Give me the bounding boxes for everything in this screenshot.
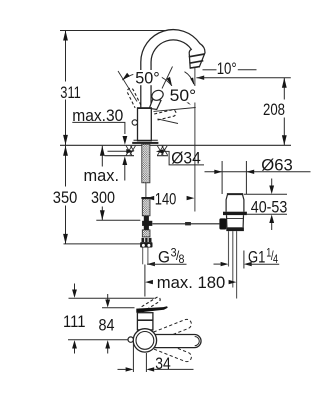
G1 1/4 extension line bbox=[243, 251, 245, 269]
dimension 34 extension lines bbox=[132, 344, 134, 373]
350 top arrow at deck bbox=[63, 146, 68, 156]
G3/8 underline bbox=[147, 263, 186, 265]
lever dashed right position bbox=[154, 110, 176, 121]
drain tail pipe line 2 bbox=[232, 231, 234, 287]
40-53 upper arrow bbox=[271, 179, 273, 186]
side view: 111 top reference line bbox=[69, 297, 155, 299]
300 bottom arrow bbox=[100, 210, 105, 220]
dimension 208 vertical line bbox=[283, 78, 285, 100]
G1 1/4 lead arrow on pipe bbox=[214, 263, 221, 265]
svg-text:111: 111 bbox=[63, 312, 86, 331]
dimension 40-53 reference line top bbox=[244, 193, 287, 195]
drain bottom band bbox=[226, 227, 244, 231]
Ø63 right arrow bbox=[246, 170, 254, 174]
350 bottom arrow bbox=[63, 234, 68, 244]
mousseur joint line 1 bbox=[189, 54, 205, 57]
white box for Ø63 label bbox=[258, 157, 295, 171]
side view dashed spout swung up bbox=[148, 318, 192, 343]
84 top reference line bbox=[102, 307, 135, 309]
40-53 lower arrow bbox=[271, 223, 273, 230]
svg-text:max. 180: max. 180 bbox=[157, 273, 226, 292]
svg-text:40-53: 40-53 bbox=[251, 198, 287, 217]
hose connector cross vertical bbox=[144, 216, 149, 230]
300 top arrow at deck bbox=[100, 146, 105, 156]
spout tube inner cap line bbox=[195, 337, 200, 346]
svg-text:300: 300 bbox=[91, 188, 115, 207]
pop-up rod knob bbox=[219, 218, 226, 229]
threaded shank bbox=[142, 144, 150, 183]
84 down arrow bbox=[107, 294, 109, 300]
dimension 140 left arrow bbox=[146, 196, 154, 200]
drain neck trapezoid bbox=[226, 195, 244, 212]
extension line arrow at spout tip bbox=[196, 76, 204, 80]
svg-text:208: 208 bbox=[263, 100, 285, 119]
Ø34 leader bbox=[164, 151, 204, 165]
svg-text:34: 34 bbox=[155, 354, 171, 373]
deck top line bbox=[60, 144, 291, 146]
84 up arrow bbox=[105, 340, 110, 348]
white box for 50 deg label 2 bbox=[168, 86, 199, 103]
side view small knob circle bbox=[128, 337, 133, 342]
hose connector cross horizontal bbox=[142, 221, 152, 226]
G1 1/4 arrow bbox=[244, 262, 252, 266]
svg-text:Ø34: Ø34 bbox=[171, 149, 201, 168]
dimension 311/350 vertical line bbox=[65, 31, 67, 82]
angle radial line left bbox=[118, 71, 137, 102]
40-53 reference line bottom bbox=[247, 213, 287, 215]
drain tail pipe line 3 bbox=[236, 231, 238, 298]
10 deg dimension line left segment bbox=[203, 69, 217, 71]
drain lower body bbox=[227, 215, 244, 227]
side view body bbox=[137, 313, 153, 330]
faucet body top edge bbox=[137, 107, 152, 109]
208 down arrow bbox=[282, 135, 287, 145]
G3/8 extension stubs bbox=[142, 248, 144, 265]
angle radial line lever axis bbox=[162, 67, 173, 89]
arc1 left arrowhead bbox=[122, 73, 130, 80]
svg-text:Ø63: Ø63 bbox=[261, 156, 293, 175]
lever solid cap bbox=[150, 88, 165, 102]
spout body single closed outline bbox=[141, 30, 205, 109]
max 180 left extension line bbox=[144, 265, 146, 297]
dimension 140 right arrow bbox=[187, 196, 195, 200]
arc 50 deg lower arrowhead bbox=[181, 97, 191, 106]
311 bottom arrow at deck bbox=[63, 135, 68, 145]
side view dashed spout swung down bbox=[148, 338, 192, 363]
svg-text:max.: max. bbox=[84, 166, 120, 185]
hose segment 2 bbox=[142, 230, 150, 237]
max.30 up arrow below deck bbox=[122, 156, 127, 165]
max.30 lower stem bbox=[124, 165, 126, 181]
34 dimension line left bbox=[118, 368, 126, 370]
lever solid shaft bbox=[149, 98, 161, 110]
pop-up actuator rod bbox=[152, 223, 219, 225]
deck bottom line left bbox=[105, 155, 135, 157]
max 180 left arrow bbox=[145, 280, 153, 284]
lever dashed left position bbox=[127, 88, 141, 108]
max 180 right arrow bbox=[229, 280, 237, 284]
spout tip face bbox=[190, 67, 200, 69]
drain tail pipe line 1 bbox=[228, 231, 230, 266]
svg-text:311: 311 bbox=[60, 83, 81, 102]
extension line spout tip to 208 bbox=[196, 77, 290, 79]
arc1 right arrowhead bbox=[167, 77, 173, 86]
34 dimension line right bbox=[146, 367, 154, 371]
rod coupler bbox=[185, 222, 191, 225]
deck hatching left bbox=[126, 146, 132, 156]
mousseur joint line 2 bbox=[189, 61, 203, 64]
Ø63 extension line left bbox=[221, 161, 223, 194]
Ø34 left arrow bbox=[126, 149, 134, 153]
svg-text:max.30: max.30 bbox=[72, 106, 123, 125]
208 up arrow bbox=[282, 78, 287, 88]
Ø63 left arrow bbox=[214, 170, 222, 174]
bottom centerline reference bbox=[68, 339, 128, 341]
svg-text:50°: 50° bbox=[135, 69, 160, 88]
350 bottom reference line bbox=[64, 243, 141, 245]
111 down arrow bbox=[74, 284, 76, 290]
hose center line bbox=[145, 183, 147, 199]
111 up arrow bbox=[72, 340, 77, 348]
hose segment 1 bbox=[141, 197, 151, 199]
svg-text:84: 84 bbox=[99, 316, 115, 335]
G 3/8 nut upper bbox=[142, 238, 152, 242]
Ø63 dimension line bbox=[205, 171, 311, 173]
faucet body bbox=[138, 108, 152, 141]
10 deg angle arc arrowhead bbox=[190, 78, 194, 86]
escutcheon flange bbox=[134, 139, 158, 141]
10 deg dimension line right segment bbox=[238, 69, 257, 71]
dimension 300 vertical line bbox=[101, 146, 103, 167]
G 3/8 nut lower bbox=[140, 242, 152, 247]
spout tip vertical reference line bbox=[194, 68, 196, 212]
svg-text:50°: 50° bbox=[170, 86, 197, 105]
side view solid handle bar bbox=[136, 306, 167, 313]
drain lower body inner line bbox=[227, 217, 244, 219]
deck bottom line right bbox=[157, 155, 168, 157]
side view pivot ring bbox=[133, 329, 156, 352]
Ø63 extension line right bbox=[245, 161, 247, 194]
max.30 down arrow bbox=[123, 136, 128, 145]
drain disc bbox=[223, 212, 247, 215]
311 top arrow bbox=[63, 31, 68, 41]
dimension max.30 underline bbox=[72, 122, 125, 134]
white box for 50 deg label 1 bbox=[133, 70, 162, 85]
G3/8 arrow bbox=[147, 262, 155, 266]
svg-text:140: 140 bbox=[155, 190, 177, 209]
angle reference line lower bbox=[158, 119, 179, 124]
10 deg angle arc bbox=[185, 72, 194, 84]
drain top edge bbox=[227, 193, 243, 195]
Ø34 right arrow bbox=[156, 149, 164, 153]
dimension Ø34 left lead bbox=[108, 150, 127, 152]
side view spout tube bbox=[147, 335, 202, 348]
angle arc 50 deg upper bbox=[122, 73, 172, 86]
pop-up knob circle on body bbox=[132, 120, 137, 125]
side view dashed lever up position bbox=[140, 297, 160, 312]
svg-text:10°: 10° bbox=[217, 59, 237, 78]
deck hatching right bbox=[157, 146, 163, 156]
G1 1/4 underline bbox=[248, 263, 279, 265]
300 bottom reference line bbox=[96, 219, 140, 221]
dimension 311 top extension line bbox=[60, 30, 172, 32]
angle radial line right dashed axis bbox=[154, 108, 196, 112]
svg-text:350: 350 bbox=[53, 188, 78, 207]
